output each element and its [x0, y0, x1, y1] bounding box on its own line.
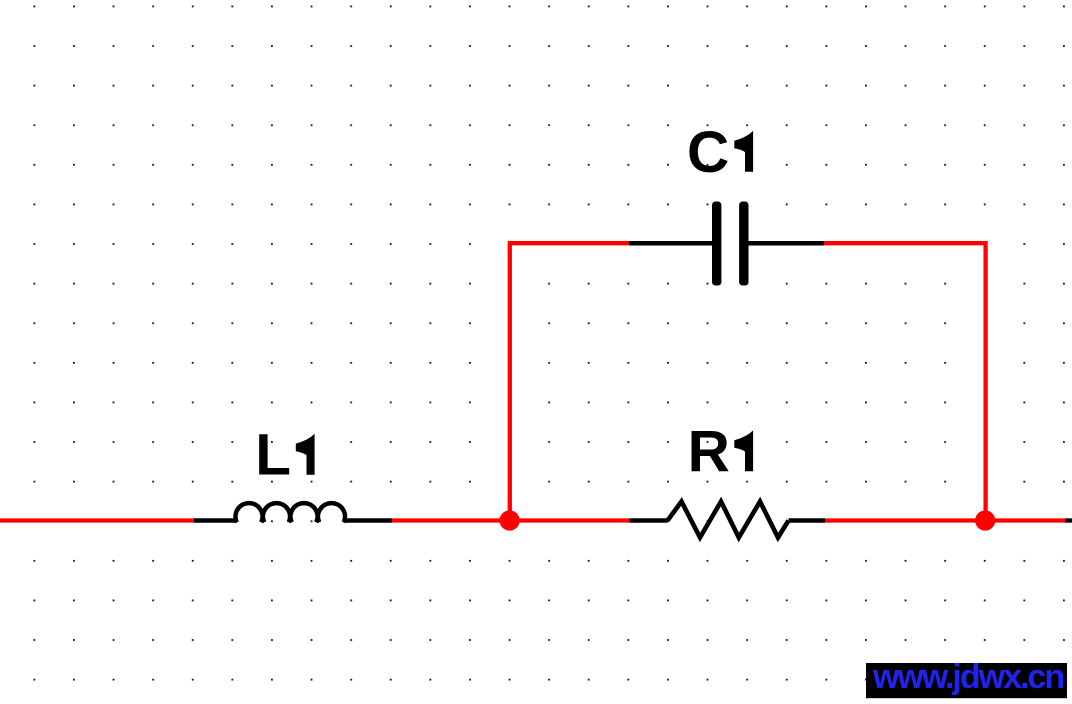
- resistor R1: [630, 502, 826, 538]
- label R1: [688, 419, 754, 484]
- node B junction dot: [975, 510, 995, 530]
- wire: black stub at right edge: [1065, 518, 1072, 522]
- wire: main net left red segment: [0, 518, 194, 522]
- svg-text:C: C: [687, 120, 729, 185]
- label L1: [255, 423, 314, 488]
- wire: right vertical red wire of parallel branch: [824, 243, 985, 520]
- label C1: [687, 120, 753, 185]
- inductor L1: [194, 503, 392, 522]
- wire: red segment between R1 and node B, to right edge: [825, 518, 1065, 522]
- wire: red segment between L1 and node A: [392, 518, 630, 522]
- wire: left vertical red wire of parallel branch: [510, 243, 629, 520]
- node A junction dot: [500, 510, 520, 530]
- svg-text:R: R: [688, 419, 730, 484]
- watermark www.jdwx.cn: [866, 658, 1067, 698]
- capacitor C1: [629, 202, 824, 286]
- svg-text:www.jdwx.cn: www.jdwx.cn: [872, 658, 1063, 696]
- svg-text:L: L: [255, 423, 291, 488]
